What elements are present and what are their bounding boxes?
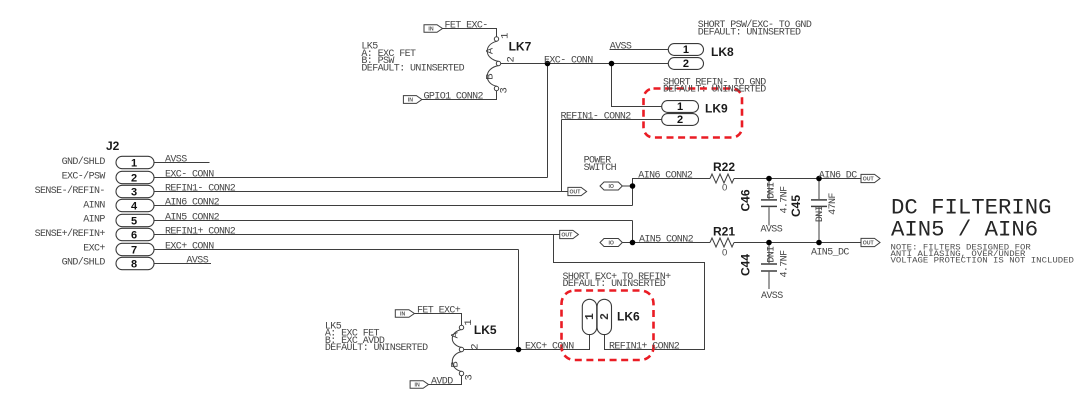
svg-text:7: 7 (131, 244, 137, 256)
svg-text:2: 2 (683, 58, 689, 70)
svg-text:EXC+_CONN: EXC+_CONN (165, 242, 214, 253)
svg-text:SENSE-/REFIN-: SENSE-/REFIN- (35, 185, 105, 197)
svg-text:IN: IN (428, 26, 433, 32)
svg-text:AIN6_CONN2: AIN6_CONN2 (165, 198, 220, 209)
svg-text:IN: IN (415, 383, 420, 389)
svg-text:OUT: OUT (863, 177, 875, 183)
svg-text:AIN5_CONN2: AIN5_CONN2 (165, 213, 220, 224)
svg-text:REFIN1+_CONN2: REFIN1+_CONN2 (609, 342, 680, 353)
svg-text:2: 2 (599, 313, 612, 320)
svg-text:LK9: LK9 (705, 102, 728, 116)
svg-text:AIN6_DC: AIN6_DC (819, 171, 857, 182)
svg-text:AVSS: AVSS (165, 155, 187, 166)
svg-text:2: 2 (131, 172, 137, 184)
svg-text:3: 3 (131, 186, 137, 198)
svg-text:J2: J2 (106, 139, 120, 153)
svg-text:IN: IN (400, 312, 405, 318)
svg-text:GND/SHLD: GND/SHLD (62, 156, 106, 168)
svg-text:A: A (450, 331, 462, 338)
svg-text:REFIN1-_CONN2: REFIN1-_CONN2 (165, 184, 236, 195)
svg-text:GND/SHLD: GND/SHLD (62, 257, 106, 269)
svg-text:2: 2 (506, 56, 518, 62)
svg-text:2: 2 (677, 114, 683, 126)
svg-text:1: 1 (677, 101, 683, 113)
svg-text:DEFAULT: UNINSERTED: DEFAULT: UNINSERTED (698, 27, 801, 38)
svg-text:DEFAULT: UNINSERTED: DEFAULT: UNINSERTED (663, 85, 766, 96)
svg-text:4: 4 (131, 200, 138, 212)
svg-text:IN: IN (408, 98, 413, 104)
svg-text:47NF: 47NF (828, 193, 839, 215)
svg-text:1: 1 (683, 44, 689, 56)
svg-text:OUT: OUT (561, 233, 573, 239)
svg-text:6: 6 (131, 229, 137, 241)
svg-text:A: A (485, 47, 497, 54)
svg-text:OUT: OUT (863, 241, 875, 247)
svg-text:5: 5 (131, 215, 137, 227)
svg-text:AVSS: AVSS (761, 225, 783, 236)
svg-text:C44: C44 (739, 254, 753, 276)
svg-text:1: 1 (131, 157, 137, 169)
svg-text:AINN: AINN (83, 200, 105, 211)
svg-text:SENSE+/REFIN+: SENSE+/REFIN+ (35, 228, 106, 240)
svg-text:AIN5 / AIN6: AIN5 / AIN6 (891, 216, 1038, 242)
svg-text:DNI: DNI (815, 206, 826, 222)
svg-text:3: 3 (499, 87, 511, 93)
svg-text:3: 3 (464, 374, 476, 380)
svg-text:LK6: LK6 (617, 310, 640, 324)
svg-text:C46: C46 (739, 189, 753, 211)
svg-text:AVSS: AVSS (761, 291, 783, 302)
svg-text:1: 1 (499, 33, 511, 39)
svg-text:R21: R21 (713, 225, 735, 239)
svg-text:B: B (485, 73, 497, 79)
svg-text:2: 2 (469, 343, 481, 349)
svg-text:AVDD: AVDD (431, 377, 453, 388)
svg-text:DEFAULT: UNINSERTED: DEFAULT: UNINSERTED (563, 279, 666, 290)
svg-text:R22: R22 (713, 160, 735, 174)
svg-text:IO: IO (608, 241, 613, 247)
svg-text:REFIN1-_CONN2: REFIN1-_CONN2 (561, 112, 632, 123)
svg-text:LK7: LK7 (509, 39, 532, 53)
svg-text:VOLTAGE PROTECTION IS NOT INCL: VOLTAGE PROTECTION IS NOT INCLUDED (891, 256, 1074, 265)
svg-text:DEFAULT: UNINSERTED: DEFAULT: UNINSERTED (361, 63, 464, 74)
svg-text:B: B (450, 361, 462, 367)
svg-text:FET_EXC-: FET_EXC- (445, 21, 488, 32)
svg-text:0: 0 (722, 248, 727, 259)
svg-text:LK5: LK5 (474, 323, 497, 337)
svg-text:1: 1 (463, 319, 475, 325)
svg-text:GPIO1_CONN2: GPIO1_CONN2 (424, 92, 484, 103)
svg-text:0: 0 (722, 183, 727, 194)
svg-text:EXC-_CONN: EXC-_CONN (165, 170, 214, 181)
svg-text:C45: C45 (789, 195, 803, 217)
svg-text:AIN5_CONN2: AIN5_CONN2 (639, 235, 694, 246)
svg-text:AIN5_DC: AIN5_DC (811, 247, 849, 258)
svg-text:EXC+: EXC+ (83, 243, 105, 254)
svg-text:AINP: AINP (83, 215, 105, 226)
svg-text:8: 8 (131, 258, 137, 270)
svg-text:AVSS: AVSS (187, 256, 209, 267)
svg-text:AIN6_CONN2: AIN6_CONN2 (638, 171, 693, 182)
svg-text:IO: IO (608, 184, 613, 190)
svg-text:4.7NF: 4.7NF (779, 250, 790, 278)
svg-text:OUT: OUT (570, 190, 582, 196)
svg-text:4.7NF: 4.7NF (779, 186, 790, 214)
svg-text:DNI: DNI (767, 182, 778, 198)
svg-text:DEFAULT: UNINSERTED: DEFAULT: UNINSERTED (325, 343, 428, 354)
svg-text:EXC-_CONN: EXC-_CONN (544, 56, 593, 67)
svg-text:SWITCH: SWITCH (584, 163, 617, 174)
svg-text:REFIN1+_CONN2: REFIN1+_CONN2 (165, 227, 236, 238)
svg-text:LK8: LK8 (711, 45, 734, 59)
svg-text:AVSS: AVSS (610, 42, 632, 53)
svg-text:DNI: DNI (767, 246, 778, 262)
svg-text:EXC-/PSW: EXC-/PSW (62, 170, 106, 182)
svg-text:EXC+_CONN: EXC+_CONN (525, 342, 574, 353)
svg-text:1: 1 (584, 313, 597, 320)
svg-text:FET_EXC+: FET_EXC+ (417, 306, 461, 317)
